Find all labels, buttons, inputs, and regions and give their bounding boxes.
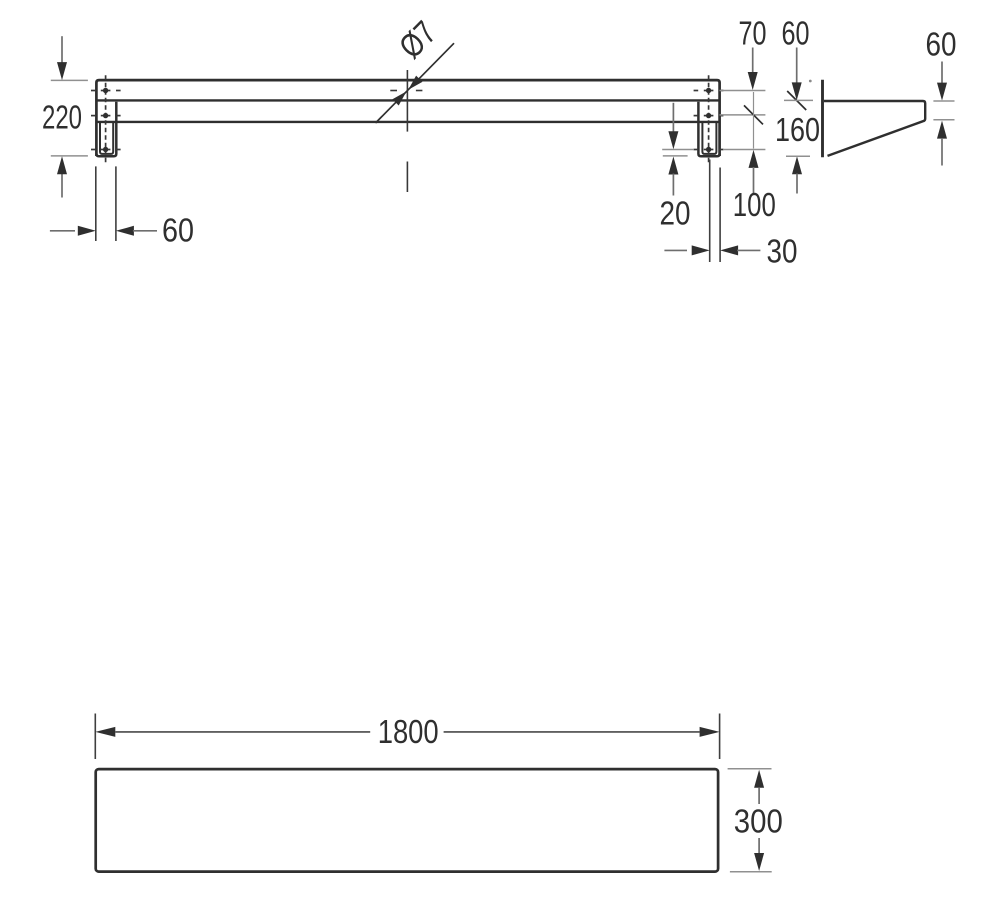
dim 60 line right part xyxy=(133,230,157,232)
dim 1800 extension line left xyxy=(94,714,96,760)
right bracket screw hole mark 2 xyxy=(694,115,699,117)
label Ø7 xyxy=(392,14,444,66)
svg-text:70: 70 xyxy=(739,14,767,51)
dim 60 side tick top xyxy=(933,100,954,102)
dim 30 right arrow xyxy=(720,245,738,255)
tick at 160 top xyxy=(784,99,813,101)
left bracket vertical screw centerline (dashed) xyxy=(105,75,107,163)
right bracket screw hole mark 1 xyxy=(694,90,699,92)
dim 220 extension tick top xyxy=(51,79,88,81)
tick at bottom screw line left of bracket xyxy=(662,149,694,151)
side view wall line xyxy=(821,80,824,157)
shelf surface line (front view middle line) xyxy=(96,99,719,101)
tick at 160 bottom xyxy=(786,155,810,157)
dim 100 connecting line xyxy=(753,92,755,149)
diameter leader line (45 deg) xyxy=(376,43,455,123)
dim 160 lower arrow xyxy=(792,156,802,174)
svg-text:30: 30 xyxy=(767,232,798,269)
dim 30 line left part xyxy=(664,249,687,251)
svg-text:220: 220 xyxy=(42,99,82,136)
left wall bracket outline xyxy=(96,102,116,156)
svg-text:300: 300 xyxy=(734,802,783,839)
dim 220 lower arrow xyxy=(61,173,63,198)
dim 1800 extension line right xyxy=(719,714,721,760)
dim 60 extension line left xyxy=(95,166,97,241)
dim 60 left arrow xyxy=(78,226,96,236)
dim 30 extension line left (bracket centerline) xyxy=(709,160,711,263)
dim 60 extension line right xyxy=(115,166,117,241)
dim 100 lower arrow xyxy=(749,150,759,168)
centre hole horizontal dashes xyxy=(390,90,397,92)
dim 1800 left arrow xyxy=(95,727,115,737)
centre hole centerline extension below shelf xyxy=(406,162,408,193)
tick at top screw line xyxy=(720,90,766,92)
dim 1800 line right part xyxy=(444,731,700,733)
left bracket screw hole mark 2 xyxy=(91,115,95,117)
dim 70 arrow xyxy=(752,48,754,74)
dim 300 tick bottom xyxy=(730,871,772,873)
svg-text:20: 20 xyxy=(660,194,691,231)
svg-text:60: 60 xyxy=(162,212,194,249)
right wall bracket outline xyxy=(698,102,719,156)
dim 60 top arrow xyxy=(796,48,798,84)
dim 1800 line left part xyxy=(115,731,370,733)
stray dot xyxy=(809,80,812,83)
dim 60 right arrow xyxy=(116,226,134,236)
left wall bracket inner plate xyxy=(100,122,113,154)
dim 220 upper arrow xyxy=(61,36,63,66)
svg-text:100: 100 xyxy=(733,186,776,223)
dim 1800 right arrow xyxy=(700,727,720,737)
dim 60 side: upper arrow xyxy=(941,62,943,84)
svg-text:60: 60 xyxy=(782,14,810,51)
svg-text:160: 160 xyxy=(775,111,820,148)
left bracket screw hole mark 1 xyxy=(91,90,95,92)
svg-text:1800: 1800 xyxy=(378,713,439,750)
slash terminator at mid screw line xyxy=(744,105,763,124)
shelf front apron bottom line xyxy=(96,121,719,123)
dim 60 side: lower arrow xyxy=(937,121,947,139)
left bracket screw hole mark 3 xyxy=(91,149,95,151)
svg-text:60: 60 xyxy=(926,25,957,62)
plan view shelf rectangle 1800x300 xyxy=(96,769,718,872)
dim 60 line left part xyxy=(50,230,75,232)
tick at mid screw line xyxy=(720,114,766,116)
right bracket screw hole mark 3 xyxy=(694,149,699,151)
dim 30 extension line right (shelf end) xyxy=(719,168,721,263)
dim 30 left arrow xyxy=(692,245,710,255)
tick at bracket bottom level xyxy=(663,155,688,157)
diameter leader arrowheads at hole xyxy=(408,76,422,90)
right bracket vertical screw centerline (dashed) xyxy=(708,75,710,163)
centre hole vertical centerline xyxy=(406,70,408,132)
dim 60 side tick bottom xyxy=(933,119,954,121)
dim 300 tick top xyxy=(728,768,772,770)
dim 300 upper arrow xyxy=(754,770,764,788)
dim 30 line right part xyxy=(737,249,760,251)
dim 20 lower arrow xyxy=(668,157,678,175)
tick at bottom screw line right xyxy=(723,149,765,151)
side view bracket profile (top edge, front edge, sloped bottom) xyxy=(824,101,925,156)
right wall bracket inner plate xyxy=(702,122,716,154)
dim 20 upper arrow xyxy=(672,103,674,133)
slash terminator at shelf surface line xyxy=(787,91,806,110)
dim 220 extension tick bottom xyxy=(51,155,88,157)
dim 300 lower arrow xyxy=(758,838,760,853)
wall shelf front view: shelf outline with top edge and end edges xyxy=(96,80,719,156)
